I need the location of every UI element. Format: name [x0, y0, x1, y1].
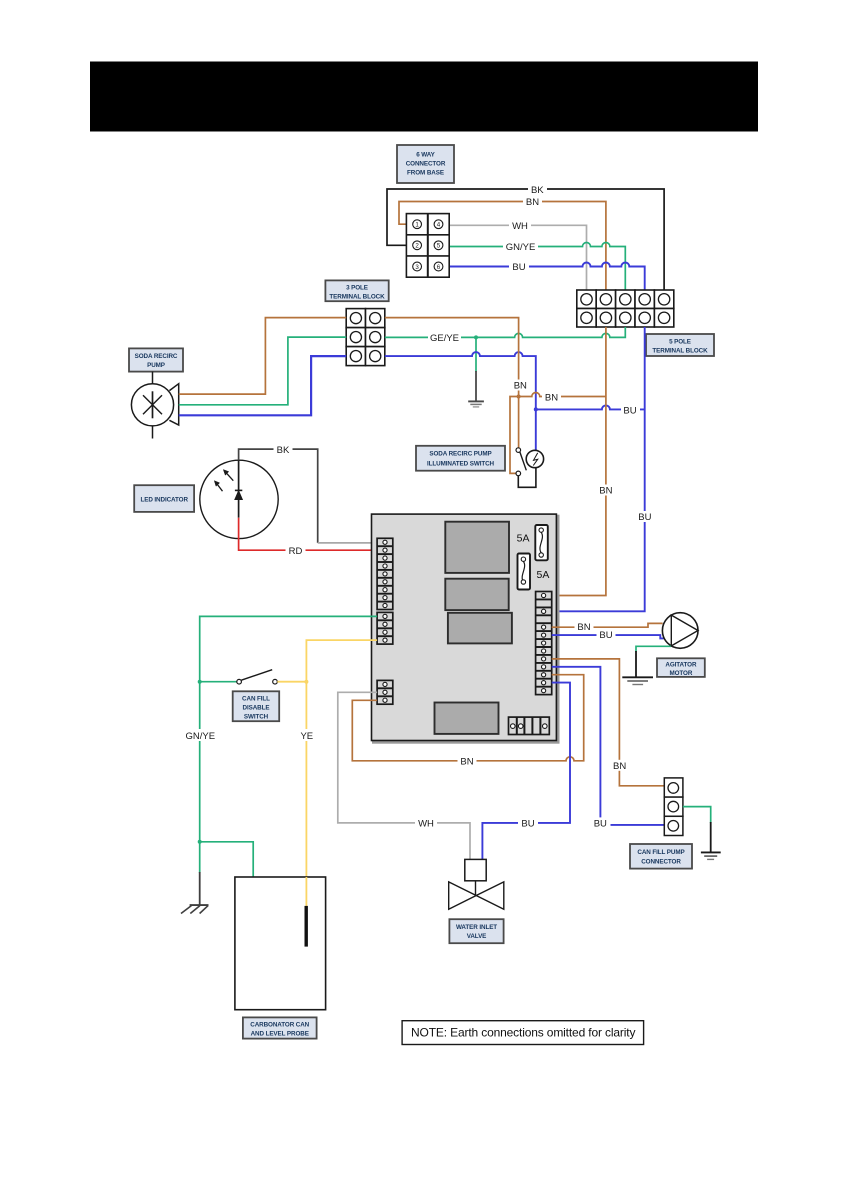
node GN/YE can junction: [198, 840, 202, 844]
carbonator can: [235, 877, 326, 1010]
title banner (redacted black): [90, 62, 758, 132]
wire BU (6-way pin6 to 5-pole terminal 4): [449, 263, 645, 291]
svg-text:BK: BK: [277, 445, 290, 456]
svg-text:BN: BN: [460, 756, 473, 767]
PCB left terminal strip group 1 (L1-L9): [377, 538, 393, 609]
fuse F1 5A: [535, 525, 548, 560]
soda recirc pump symbol M1: [131, 372, 178, 439]
wire YE (PCB terminal L13 to switch and probe): [306, 640, 377, 906]
svg-text:SWITCH: SWITCH: [244, 714, 269, 721]
svg-text:2: 2: [415, 243, 419, 250]
wire WH (6-way pin4 to 5-pole terminal 1): [449, 225, 587, 290]
wire label BN (on riser at 3-pole): [511, 380, 530, 392]
wire BU (PCB terminal R12 to water inlet valve): [482, 683, 570, 860]
svg-text:VALVE: VALVE: [467, 933, 487, 940]
svg-text:5: 5: [437, 243, 441, 250]
svg-text:ILLUMINATED SWITCH: ILLUMINATED SWITCH: [427, 461, 495, 468]
svg-text:BN: BN: [613, 761, 626, 772]
svg-text:6 WAY: 6 WAY: [416, 152, 435, 159]
svg-text:BN: BN: [514, 381, 527, 392]
wire BN (3-pole pole 1 to switch and BN riser): [385, 318, 519, 448]
wire BN branch to switch bottom contact: [510, 397, 519, 474]
svg-text:LED INDICATOR: LED INDICATOR: [140, 497, 188, 504]
svg-text:BU: BU: [599, 630, 612, 641]
ground (chassis) below GN/YE riser: [181, 872, 209, 914]
wire label WH: [415, 817, 437, 829]
connector J1: 6 way connector grid: [406, 214, 449, 278]
relay K2: [445, 579, 508, 610]
node BU junction: [534, 407, 538, 411]
wire BU (PCB terminal R10 to can fill pump connector pin 3): [552, 667, 665, 825]
wire GN/YE branch to carbonator can: [200, 842, 254, 877]
svg-text:CAN FILL PUMP: CAN FILL PUMP: [637, 849, 684, 856]
wire label BN (motor): [575, 621, 594, 633]
node BN junction: [517, 395, 521, 399]
svg-text:DISABLE: DISABLE: [243, 705, 270, 712]
wire label RD: [286, 545, 306, 557]
wire GN (motor to earth): [636, 646, 671, 652]
svg-text:BU: BU: [594, 818, 607, 829]
svg-text:WATER INLET: WATER INLET: [456, 924, 497, 931]
label box: WATER INLET VALVE: [449, 919, 503, 943]
svg-text:BU: BU: [521, 818, 534, 829]
svg-text:BN: BN: [526, 197, 539, 208]
PCB left terminal strip group 3 (L14-L16): [377, 680, 393, 704]
svg-text:BU: BU: [638, 512, 651, 523]
svg-text:WH: WH: [512, 221, 528, 232]
pin numbers 1-6 of 6 way connector: [415, 222, 440, 271]
switch S1: soda recirc pump illuminated switch: [516, 448, 544, 487]
label box: 3 POLE TERMINAL BLOCK: [325, 280, 388, 301]
agitator motor M2: [662, 613, 698, 649]
wire label BN (can fill riser): [610, 760, 629, 772]
wire label BN (bottom run): [458, 755, 477, 767]
svg-text:5 POLE: 5 POLE: [669, 339, 691, 346]
wire WH (PCB terminal L15 to water inlet valve): [338, 692, 470, 859]
relay K3: [448, 613, 512, 644]
wire BN (PCB terminal R5 to agitator motor): [552, 623, 663, 627]
PCB main board U1: [372, 514, 559, 742]
svg-text:WH: WH: [418, 818, 434, 829]
wire label WH: [509, 220, 531, 232]
wire label BU: [621, 404, 640, 416]
label box: CAN FILL DISABLE SWITCH: [233, 691, 280, 721]
wire label BN (horizontal branch): [542, 392, 561, 404]
relay K1: [445, 522, 509, 573]
switch S2: can fill disable switch: [237, 670, 278, 684]
svg-text:TERMINAL BLOCK: TERMINAL BLOCK: [652, 348, 708, 355]
wire label YE: [297, 729, 317, 742]
svg-text:SODA RECIRC: SODA RECIRC: [135, 353, 178, 360]
wire GE/YE (5-pole terminal 3 to 3-pole pole 2): [385, 327, 626, 337]
PCB bottom 5-cell connector: [509, 717, 550, 734]
wire branch to earth ground: [475, 337, 477, 372]
wire BU (pump to 3 pole block pole 3): [179, 356, 347, 415]
wire BK (6-way pin2 to 5-pole terminal 5): [387, 189, 664, 290]
terminal block TB2: 5 pole terminal block: [577, 290, 674, 327]
label box: LED INDICATOR: [134, 485, 194, 512]
wire label BN (on long riser): [597, 485, 616, 497]
wire label GN/YE: [503, 242, 538, 254]
svg-text:5A: 5A: [537, 569, 550, 581]
ground (earth) below can fill connector: [701, 822, 721, 859]
svg-text:AGITATOR: AGITATOR: [665, 661, 697, 668]
wire BN (PCB terminal R11 around bottom to PCB terminal L16): [352, 675, 583, 761]
connector J2: can fill pump connector: [664, 778, 683, 836]
svg-text:GN/YE: GN/YE: [186, 731, 216, 742]
svg-text:PUMP: PUMP: [147, 362, 165, 369]
wire GN/YE (6-way pin5 to 5-pole terminal 3): [449, 243, 625, 291]
node GN/YE switch junction: [198, 680, 202, 684]
fuse F2 5A: [518, 554, 531, 590]
wire RD (LED to PCB terminal L2): [239, 518, 378, 551]
svg-text:YE: YE: [300, 731, 313, 742]
svg-text:NOTE: Earth connections omitte: NOTE: Earth connections omitted for clar…: [411, 1025, 635, 1039]
wire YE segment inside can: [305, 877, 307, 907]
label box: 6 WAY CONNECTOR FROM BASE: [397, 145, 454, 183]
svg-text:6: 6: [437, 264, 441, 271]
svg-text:RD: RD: [289, 546, 303, 557]
note box: [402, 1021, 643, 1045]
wire GN/YE branch to can fill disable switch: [200, 681, 237, 683]
wire GN (pump to 3 pole block pole 2): [179, 337, 347, 405]
label box: 5 POLE TERMINAL BLOCK: [646, 334, 714, 356]
svg-text:CAN FILL: CAN FILL: [242, 696, 270, 703]
svg-text:MOTOR: MOTOR: [669, 670, 692, 677]
svg-text:GE/YE: GE/YE: [430, 333, 459, 344]
svg-text:GN/YE: GN/YE: [506, 242, 536, 253]
svg-text:BU: BU: [623, 405, 636, 416]
label box: SODA RECIRC PUMP ILLUMINATED SWITCH: [416, 446, 505, 471]
PCB left terminal strip group 2 (L10-L13): [377, 612, 393, 644]
wire BU (PCB terminal R6 to agitator motor): [552, 635, 664, 638]
wire label BU (valve): [518, 817, 538, 829]
svg-text:4: 4: [437, 222, 441, 229]
wire GN/YE (PCB terminal L10 left and down): [200, 616, 377, 873]
wire BU branch (lamp node to BU riser): [536, 405, 645, 409]
wire BN (PCB terminal R9 to can fill pump connector pin 1): [552, 659, 665, 786]
svg-text:3 POLE: 3 POLE: [346, 284, 368, 291]
svg-text:BN: BN: [599, 486, 612, 497]
svg-text:FROM BASE: FROM BASE: [407, 170, 444, 177]
ground (earth) below GE/YE: [468, 371, 484, 407]
svg-text:BK: BK: [531, 185, 544, 196]
wire BK (LED to PCB terminal L1): [239, 449, 318, 543]
wire BN (5-pole terminal 2 down to PCB terminal R1): [552, 327, 606, 596]
label box: CAN FILL PUMP CONNECTOR: [630, 844, 692, 869]
svg-text:5A: 5A: [517, 533, 530, 545]
wire label BU (can fill riser): [591, 817, 611, 829]
svg-text:3: 3: [415, 264, 419, 271]
wire BN branch (switch node to BN riser): [519, 393, 606, 397]
svg-text:CONNECTOR: CONNECTOR: [641, 859, 681, 866]
ground (earth) below motor: [622, 651, 653, 685]
wire BU (5-pole terminal 4 down to PCB terminal R3): [552, 327, 645, 611]
node GE/YE junction: [474, 335, 478, 339]
wire label BN: [523, 197, 542, 209]
level probe inside can: [305, 906, 308, 947]
wire label BK: [528, 184, 547, 196]
svg-text:TERMINAL BLOCK: TERMINAL BLOCK: [329, 293, 385, 300]
svg-text:SODA RECIRC PUMP: SODA RECIRC PUMP: [429, 451, 491, 458]
node YE junction: [304, 680, 308, 684]
LED indicator D1: [200, 460, 278, 538]
wire BN (pump to 3 pole block pole 1): [179, 318, 347, 395]
wire GN (connector pin 2 to earth): [683, 807, 711, 823]
svg-text:BU: BU: [512, 262, 525, 273]
label box: SODA RECIRC PUMP: [129, 348, 183, 371]
svg-text:BN: BN: [545, 393, 558, 404]
wire YE branch to switch right contact: [277, 681, 306, 683]
wire label BU: [509, 262, 529, 274]
terminal block TB1: 3 pole terminal block: [346, 309, 385, 366]
wire label GN/YE (vertical riser): [184, 729, 219, 742]
PCB right terminal strip (R1-R13): [536, 592, 552, 695]
wire BU (3-pole pole 3 to illuminated switch lamp): [385, 352, 536, 450]
svg-text:CARBONATOR CAN: CARBONATOR CAN: [250, 1021, 309, 1028]
wire label BU (motor): [597, 629, 616, 641]
wire label BU (on long riser): [636, 511, 655, 523]
wire BN (6-way pin1 to 5-pole terminal 2): [399, 202, 606, 291]
label box: AGITATOR MOTOR: [657, 658, 705, 677]
svg-text:CONNECTOR: CONNECTOR: [406, 161, 446, 168]
svg-text:BN: BN: [577, 622, 590, 633]
svg-text:1: 1: [415, 222, 419, 229]
wire BK gray tail into PCB: [318, 542, 377, 544]
svg-text:AND LEVEL PROBE: AND LEVEL PROBE: [251, 1030, 309, 1037]
component block at PCB bottom: [435, 703, 499, 734]
wire label BK: [274, 444, 293, 456]
water inlet valve V1: [449, 859, 504, 909]
wire label GE/YE: [428, 332, 461, 344]
label box: CARBONATOR CAN AND LEVEL PROBE: [243, 1017, 317, 1038]
